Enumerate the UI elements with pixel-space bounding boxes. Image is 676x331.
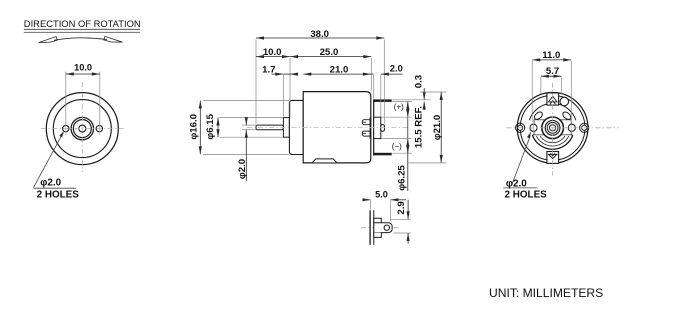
left view hub ring	[73, 120, 91, 138]
svg-text:10.0: 10.0	[74, 63, 92, 73]
ext lines phi6.25	[382, 116, 412, 118]
ext line shaft tip	[255, 40, 257, 124]
rear bearing boss	[374, 117, 381, 138]
right view vent left	[533, 111, 544, 121]
left view shaft circle	[79, 125, 86, 132]
svg-text:10.0: 10.0	[263, 47, 282, 58]
detail terminal hole	[384, 225, 389, 230]
svg-text:2 HOLES: 2 HOLES	[505, 190, 548, 201]
svg-text:φ2.0: φ2.0	[506, 179, 527, 190]
detail ext lines 2.9	[391, 218, 411, 220]
dim phi6.25	[406, 109, 409, 117]
left view horizontal centerline	[41, 128, 124, 130]
right view dim 5.7	[541, 75, 562, 77]
svg-text:1.7: 1.7	[262, 64, 275, 75]
ext line endcap right	[373, 75, 375, 99]
ext lines phi21	[420, 91, 446, 93]
right view ear left	[516, 123, 525, 132]
right view small hole top-right	[560, 97, 569, 106]
right view bottom brush cap	[547, 152, 559, 164]
svg-text:φ16.0: φ16.0	[189, 114, 200, 140]
ext lines phi16	[203, 100, 289, 102]
left view hub outer circle	[71, 117, 93, 139]
ext line tab top	[393, 99, 431, 101]
motor can body	[303, 92, 371, 163]
svg-text:5.7: 5.7	[546, 66, 559, 77]
right view dim 5.7 ext lines	[540, 77, 542, 94]
right view hub circle outer	[542, 117, 564, 139]
left view dim 10.0	[66, 73, 100, 75]
left mounting hole (right)	[96, 125, 102, 131]
ext line front face	[289, 58, 291, 117]
svg-text:φ2.0: φ2.0	[237, 159, 248, 179]
svg-text:UNIT: MILLIMETERS: UNIT: MILLIMETERS	[489, 286, 603, 300]
front housing	[289, 100, 303, 154]
right view vertical centerline	[552, 83, 554, 176]
right view leader phi2.0	[512, 137, 530, 186]
svg-text:2 HOLES: 2 HOLES	[37, 189, 80, 200]
terminal tab (-)	[374, 153, 392, 155]
can bottom seam notch	[313, 159, 337, 163]
dim phi16.0	[199, 101, 201, 155]
ext line tab bottom	[393, 101, 413, 103]
right view dim 11.0 ext lines	[531, 61, 533, 122]
svg-text:5.0: 5.0	[375, 190, 388, 200]
can clip lower	[362, 131, 370, 136]
right view mounting hole left	[530, 124, 537, 131]
dim 21.0	[303, 73, 371, 75]
right view hub circle 2	[545, 120, 560, 135]
right view mounting hole right	[568, 124, 575, 131]
svg-text:2.0: 2.0	[390, 64, 403, 74]
right view hub band plate	[534, 120, 571, 135]
svg-text:38.0: 38.0	[310, 29, 329, 40]
ext line boss left	[282, 75, 284, 117]
front bearing boss	[283, 118, 289, 138]
can edge restroke over clips	[369, 118, 371, 139]
svg-text:φ2.0: φ2.0	[40, 177, 61, 188]
right view dim 11.0	[532, 59, 571, 61]
svg-text:φ6.25: φ6.25	[397, 165, 408, 191]
left view leader line phi2.0	[34, 133, 64, 188]
right view shaft hole	[550, 125, 556, 131]
svg-text:15.5 REF.: 15.5 REF.	[414, 106, 425, 148]
svg-text:φ21.0: φ21.0	[432, 115, 443, 141]
ext line rear tip	[383, 40, 385, 124]
terminal tab (+)	[374, 100, 392, 102]
svg-text:DIRECTION OF ROTATION: DIRECTION OF ROTATION	[24, 18, 141, 29]
detail terminal lower step	[374, 233, 382, 238]
left mounting hole (left)	[63, 125, 69, 131]
dim 10.0 shaft	[256, 56, 290, 58]
svg-text:11.0: 11.0	[542, 50, 560, 61]
svg-text:25.0: 25.0	[320, 47, 339, 58]
right view brush card arcs	[529, 104, 547, 120]
rotation curved double arrow	[54, 38, 107, 40]
detail terminal upper step	[374, 218, 382, 223]
right view hub circle 3	[547, 122, 558, 133]
dim 1.7	[272, 73, 284, 75]
dim 5.0	[363, 199, 371, 201]
right view top brush cap	[547, 93, 559, 105]
dim 2.9	[407, 200, 409, 220]
svg-text:(−): (−)	[392, 142, 402, 151]
right view inner circle	[520, 95, 585, 160]
detail ext lines 5.0	[370, 201, 372, 210]
middle view horizontal centerline	[247, 126, 409, 128]
detail endcap plate	[369, 210, 371, 245]
dim phi21.0	[440, 92, 442, 163]
left view dim 10.0 extension lines	[65, 72, 67, 125]
left view inner circle (front housing)	[53, 100, 111, 158]
detail terminal lug	[374, 223, 392, 233]
svg-text:φ6.15: φ6.15	[205, 113, 216, 139]
svg-text:2.9: 2.9	[396, 201, 407, 214]
svg-text:21.0: 21.0	[330, 64, 349, 75]
can clip upper	[362, 120, 370, 125]
right view outer circle	[517, 93, 588, 164]
right view vent right	[561, 111, 572, 121]
ext line can right	[370, 58, 372, 91]
endcap rim	[373, 99, 375, 155]
dim phi6.15	[217, 118, 219, 138]
rear boss tip	[381, 125, 385, 132]
dim 2.0	[365, 73, 374, 75]
svg-text:0.3: 0.3	[414, 75, 425, 88]
ext lines phi6.15	[219, 117, 283, 119]
dim 25.0	[290, 56, 371, 58]
left view outer circle (motor body)	[46, 93, 118, 165]
right view ear right	[580, 123, 589, 132]
ext line lower tab top	[393, 152, 413, 154]
dim 38.0	[256, 37, 384, 39]
right view horizontal centerline	[507, 127, 620, 129]
dim phi2.0 shaft	[245, 119, 247, 126]
shaft	[256, 125, 284, 130]
ext lines phi2 shaft	[242, 124, 257, 126]
left view vertical centerline	[81, 82, 83, 172]
svg-text:(+): (+)	[394, 102, 404, 111]
ext line rear boss right	[380, 75, 382, 117]
dim 15.5 REF	[407, 102, 409, 154]
detail centerline	[361, 227, 398, 229]
